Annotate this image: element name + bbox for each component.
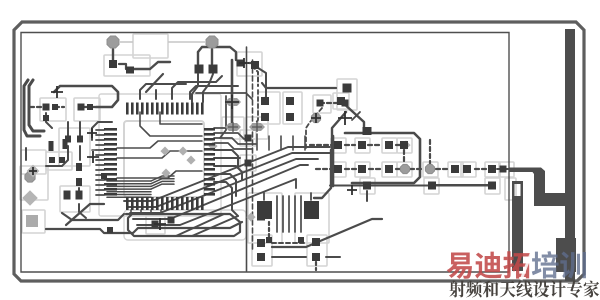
- wire loop bottom: [126, 214, 240, 236]
- wire 127: [276, 196, 278, 232]
- wire 17: [112, 49, 114, 60]
- wire 136: [430, 184, 490, 186]
- wire 43: [96, 179, 104, 181]
- wire 108: [369, 168, 383, 170]
- wire 6: [55, 106, 64, 108]
- pad P50: [257, 253, 265, 261]
- wire 87: [127, 153, 330, 207]
- pad P24: [286, 97, 294, 105]
- via diamond V7b: [27, 165, 40, 178]
- antenna feed arm: [509, 168, 533, 173]
- via diamond V9: [178, 146, 187, 155]
- wire 79: [214, 166, 242, 180]
- wire bus center vertical 2: [252, 60, 254, 250]
- wire 71: [214, 143, 252, 149]
- courtyard C13: [222, 117, 244, 139]
- pad P45: [363, 182, 371, 190]
- wire loop grid: [345, 133, 420, 183]
- wire 100: [315, 262, 317, 270]
- wire bus center vertical: [246, 47, 248, 271]
- wire 22: [192, 74, 198, 102]
- wire courtyard lead right: [168, 41, 205, 43]
- wire 98: [272, 256, 306, 258]
- pad P37: [400, 141, 408, 149]
- wire 54: [107, 196, 151, 198]
- wire 94: [176, 214, 224, 236]
- pad P53: [266, 237, 272, 243]
- pad P3: [195, 65, 204, 74]
- courtyard C2: [40, 98, 66, 121]
- courtyard outline 30: [461, 162, 476, 177]
- pad P47: [488, 182, 496, 190]
- courtyard J1: [21, 150, 46, 174]
- courtyard outline 31: [485, 162, 500, 177]
- wire 75: [292, 136, 294, 150]
- wire 134: [310, 193, 312, 200]
- wire 19: [134, 62, 170, 69]
- pad P16: [49, 141, 54, 151]
- wire 99: [326, 256, 340, 258]
- wire 85: [160, 210, 162, 214]
- wire 42: [96, 174, 104, 176]
- wire 7: [84, 106, 95, 108]
- wire 3: [30, 106, 44, 108]
- courtyard outline 28: [423, 162, 438, 177]
- IC U1 pins: [104, 103, 215, 211]
- via V3: [311, 113, 320, 122]
- pad P7: [78, 104, 85, 111]
- wire 128: [282, 196, 284, 232]
- wire 119: [262, 83, 336, 88]
- wire 78: [214, 157, 240, 159]
- wire 11: [79, 146, 81, 160]
- pad P39: [358, 165, 366, 173]
- wire 10: [46, 146, 68, 166]
- wire 90: [137, 179, 296, 225]
- wire 30: [252, 90, 258, 128]
- pad P22: [251, 61, 259, 69]
- pad P14: [64, 191, 71, 200]
- pad P9: [43, 115, 49, 121]
- wire 65: [117, 171, 202, 178]
- board outline inner: [21, 33, 509, 273]
- wire 18: [119, 64, 126, 69]
- wire 4: [54, 86, 118, 107]
- courtyard outline 22: [382, 138, 397, 153]
- wire 101: [310, 144, 332, 146]
- polarity cross 2: [87, 151, 99, 163]
- wire 59: [140, 84, 186, 99]
- watermark logo red text 易迪拓: [447, 251, 530, 279]
- wire 102: [345, 144, 355, 146]
- pad P34: [334, 141, 342, 149]
- pad P33: [245, 160, 252, 167]
- courtyard bottom loop: [124, 210, 246, 240]
- wire 72: [256, 134, 258, 150]
- courtyard C14: [246, 117, 268, 139]
- wire 69: [214, 133, 244, 139]
- pad P57: [107, 227, 113, 233]
- wire 95: [192, 216, 238, 236]
- wire 44: [96, 184, 104, 186]
- wire 97: [272, 242, 306, 244]
- via octagon crossed 2: [249, 122, 265, 132]
- polarity cross 7: [154, 218, 166, 230]
- pad P15: [76, 191, 83, 200]
- courtyard Q1: [248, 193, 282, 243]
- wire 70: [214, 138, 256, 144]
- wire 49: [107, 183, 151, 185]
- courtyard Q2: [295, 193, 329, 243]
- wire 14: [79, 204, 86, 218]
- courtyard C3: [74, 98, 100, 121]
- IC U1 body outline: [124, 121, 204, 197]
- pad P5: [43, 104, 50, 111]
- wire 21: [197, 52, 199, 64]
- via V6: [25, 172, 35, 182]
- courtyard C8: [337, 79, 357, 110]
- wire 37: [96, 149, 104, 151]
- pad P27: [317, 100, 324, 107]
- wire 117: [342, 102, 368, 133]
- courtyard outline 23: [397, 138, 412, 153]
- via diamond V7: [22, 190, 38, 206]
- wire 48: [107, 180, 151, 182]
- wire 86: [124, 147, 330, 201]
- courtyard J3: [22, 210, 45, 233]
- courtyard outline 32: [499, 162, 514, 177]
- antenna left bar: [512, 181, 523, 271]
- watermark slogan text 射频和天线设计专家: [449, 280, 599, 297]
- wire 15: [92, 122, 112, 140]
- wire 16: [25, 148, 27, 160]
- wire 122: [306, 108, 322, 148]
- wire 35: [96, 139, 104, 141]
- wire 106: [316, 168, 332, 170]
- wire 105: [403, 150, 405, 164]
- via V5: [425, 164, 434, 173]
- wire 33: [96, 129, 104, 131]
- courtyard outline 25: [355, 162, 370, 177]
- via V2 mounting: [206, 36, 218, 48]
- via V4: [400, 164, 409, 173]
- pad P6: [52, 104, 58, 110]
- wire 31: [242, 62, 252, 64]
- via diamond V10: [186, 155, 195, 164]
- via V1 mounting: [107, 36, 119, 48]
- pad P10: [65, 136, 71, 143]
- via octagon crossed 0: [225, 98, 241, 106]
- wire 12: [78, 188, 80, 192]
- wire 50: [107, 185, 151, 187]
- pad P23: [261, 97, 269, 105]
- antenna right bar: [565, 29, 575, 281]
- courtyard outline 21: [355, 138, 370, 153]
- pad arrow: [337, 97, 345, 105]
- pad P2: [126, 67, 134, 74]
- pad P25: [261, 113, 269, 121]
- wire 60: [155, 90, 157, 99]
- wire 91: [46, 222, 242, 233]
- wire 66: [140, 112, 202, 136]
- watermark logo gray text 培训: [532, 251, 586, 278]
- pad P8: [87, 104, 93, 110]
- pad P20: [101, 173, 107, 179]
- wire 114: [366, 191, 368, 201]
- wire 88: [130, 159, 318, 213]
- wire row C: [330, 185, 488, 187]
- pad P46: [428, 182, 436, 190]
- wire 20: [211, 49, 213, 64]
- via octagon crossed 1: [225, 122, 241, 132]
- wire 104: [396, 144, 404, 146]
- courtyard J2: [20, 166, 48, 200]
- pad P4: [209, 65, 218, 74]
- courtyard D2: [307, 235, 327, 266]
- wire 40: [96, 164, 104, 166]
- wire 82: [130, 210, 132, 214]
- antenna mid bar: [529, 168, 566, 207]
- wire 29: [220, 96, 226, 138]
- pad P18: [49, 157, 55, 163]
- wire 41: [96, 169, 104, 171]
- wire 32: [252, 66, 258, 86]
- wire 123: [332, 112, 346, 150]
- wire 45: [96, 189, 104, 191]
- wire 56: [151, 179, 174, 184]
- pad P52: [312, 253, 320, 261]
- via diamond V13: [246, 212, 255, 221]
- wire 107: [345, 168, 356, 170]
- wire 36: [96, 144, 104, 146]
- wire 68: [214, 127, 234, 129]
- wire 46: [96, 194, 104, 196]
- wire 74: [280, 136, 282, 150]
- wire 81: [214, 182, 238, 216]
- wire 67: [160, 112, 202, 124]
- wire 64: [117, 151, 202, 158]
- courtyard U2: [59, 128, 90, 166]
- courtyard J1b: [46, 152, 72, 170]
- wire 120: [196, 93, 252, 99]
- wire 53: [107, 194, 151, 196]
- IC Q1 body: [257, 201, 272, 219]
- wire 8: [67, 122, 69, 136]
- wire 34: [96, 134, 104, 136]
- courtyard C11: [240, 155, 256, 171]
- courtyard outline 34: [424, 178, 439, 194]
- wire courtyard lead left: [120, 41, 133, 43]
- courtyard C9: [333, 93, 349, 109]
- wire 5: [46, 113, 52, 128]
- polarity cross 3: [225, 95, 239, 109]
- pad P43: [488, 165, 496, 173]
- wire 47: [92, 149, 96, 151]
- courtyard C6: [283, 92, 302, 124]
- pad P40: [385, 165, 393, 173]
- pad P17: [63, 139, 68, 149]
- courtyard C5: [258, 92, 280, 124]
- wire 135: [500, 168, 509, 170]
- wire 25: [198, 47, 236, 60]
- pad P42: [463, 165, 471, 173]
- courtyard outline 35: [485, 178, 500, 194]
- wire 80: [214, 174, 236, 196]
- wire 24: [146, 74, 163, 92]
- pad P38: [334, 165, 342, 173]
- pad P13: [76, 178, 82, 186]
- wire 131: [300, 196, 302, 232]
- pad P29: [343, 84, 352, 93]
- polarity cross 1: [51, 86, 63, 98]
- wire 38: [96, 154, 104, 156]
- polarity cross 4: [338, 111, 352, 125]
- pad P26: [286, 113, 294, 121]
- polarity cross 5: [239, 58, 249, 68]
- pad square gray: [26, 215, 38, 227]
- wire long diagonal bottom: [272, 219, 382, 247]
- wire 63: [117, 141, 202, 148]
- pad P51: [312, 238, 320, 246]
- wire 133: [263, 193, 265, 200]
- courtyard U2b: [60, 186, 90, 212]
- wire 126: [352, 112, 360, 120]
- pad P55: [152, 221, 159, 228]
- pad P35: [358, 141, 366, 149]
- pad P36: [385, 141, 393, 149]
- wire 76: [304, 136, 306, 150]
- pad P28: [342, 100, 349, 107]
- courtyard outline 29: [448, 162, 463, 177]
- courtyard D1: [252, 235, 272, 266]
- wire 73: [268, 136, 270, 150]
- wire 112: [497, 168, 508, 170]
- wire 13: [66, 204, 104, 225]
- wire 92: [62, 213, 124, 220]
- wire 111: [475, 168, 486, 170]
- pad P19: [59, 157, 65, 163]
- courtyard outline 26: [382, 162, 397, 177]
- pad P49: [257, 239, 265, 247]
- wire 52: [107, 191, 151, 193]
- IC Q2 body: [304, 201, 319, 219]
- pad P31: [363, 127, 372, 135]
- wire 129: [288, 196, 290, 232]
- wire 61: [172, 76, 222, 99]
- courtyard outline 24: [331, 162, 346, 177]
- courtyard C1: [104, 55, 150, 76]
- pad P54: [298, 237, 304, 243]
- pad P11: [77, 136, 83, 143]
- pad P32: [245, 135, 252, 142]
- wire 103: [368, 144, 382, 146]
- pad P1: [109, 60, 117, 68]
- wire 121: [320, 102, 338, 104]
- via diamond V11: [161, 168, 170, 177]
- courtyard C4: [237, 52, 262, 76]
- watermark logo white slash: [521, 246, 534, 280]
- wire 28: [231, 60, 234, 128]
- wire 58: [151, 184, 174, 189]
- wire 62: [190, 86, 238, 99]
- courtyard connector K1: [133, 34, 168, 58]
- via diamond V8: [160, 146, 169, 155]
- wire 132: [268, 222, 270, 238]
- wire 118: [255, 66, 266, 100]
- wire 109: [396, 168, 424, 170]
- wire 130: [294, 196, 296, 232]
- polarity cross 8: [347, 185, 357, 195]
- courtyard C7: [313, 95, 331, 113]
- antenna bottom block: [556, 238, 576, 272]
- wire 124: [314, 150, 331, 198]
- wire 125: [429, 140, 431, 164]
- wire 116: [332, 136, 335, 186]
- pad P41: [451, 165, 459, 173]
- wire 39: [96, 159, 104, 161]
- polarity cross 6: [87, 128, 97, 138]
- courtyard C12: [146, 215, 165, 234]
- courtyard outline 33: [360, 178, 375, 194]
- courtyard U1 footprint: [99, 94, 221, 216]
- wire 2: [29, 80, 44, 131]
- wire 23: [203, 74, 213, 102]
- courtyard outline 20: [331, 138, 346, 153]
- wire 83: [140, 210, 142, 214]
- courtyard outline 27: [397, 162, 412, 177]
- wire 57: [151, 181, 174, 186]
- courtyard ANT feed: [505, 178, 516, 200]
- wire 1: [24, 80, 40, 136]
- pad P12: [76, 163, 82, 171]
- pad P48: [257, 214, 265, 221]
- wire 89: [133, 165, 308, 219]
- wire 84: [150, 210, 152, 214]
- pad P21: [237, 60, 244, 67]
- pad antenna feed: [500, 166, 507, 173]
- wire 51: [107, 188, 151, 190]
- via diamond V14: [401, 140, 410, 149]
- wire 9: [79, 122, 81, 136]
- via diamond V12: [208, 141, 217, 150]
- wire 77: [214, 150, 238, 168]
- wire 110: [436, 168, 450, 170]
- pad P56: [168, 217, 175, 224]
- wire 55: [151, 176, 174, 181]
- courtyard C10: [240, 130, 256, 146]
- polarity cross 9: [311, 113, 321, 123]
- polarity cross 10: [29, 167, 37, 175]
